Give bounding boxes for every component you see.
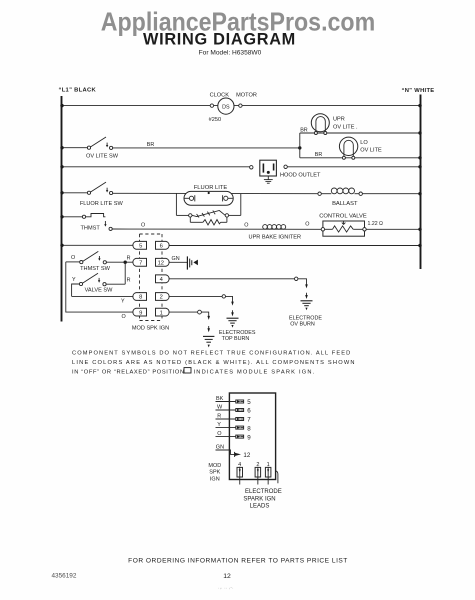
svg-text:W: W bbox=[217, 405, 223, 411]
svg-text:THMST SW: THMST SW bbox=[80, 266, 110, 272]
pin 6 bbox=[156, 241, 170, 249]
node junction right top bbox=[418, 104, 421, 107]
svg-text:R: R bbox=[127, 255, 131, 261]
node junction pin5 bbox=[60, 244, 63, 247]
svg-text:UPR: UPR bbox=[333, 117, 345, 123]
wire hood outlet line left bbox=[62, 166, 252, 168]
svg-text:O: O bbox=[217, 431, 222, 437]
svg-text:For Model: H6358W0: For Model: H6358W0 bbox=[199, 50, 262, 57]
switch FLUOR LITE SW bbox=[80, 182, 124, 207]
svg-text:#250: #250 bbox=[209, 117, 221, 123]
svg-text:7: 7 bbox=[139, 261, 142, 267]
svg-text:INDICATES MODULE SPARK IGN.: INDICATES MODULE SPARK IGN. bbox=[194, 369, 316, 375]
svg-text:OV BURN: OV BURN bbox=[290, 322, 315, 328]
svg-text:DS: DS bbox=[222, 104, 230, 110]
wire lead right edge bbox=[276, 471, 278, 483]
wire fluor line from bus bbox=[62, 192, 90, 194]
svg-text:MOTOR: MOTOR bbox=[236, 92, 257, 98]
connector row Y 8 bbox=[216, 422, 252, 432]
node junction line2 bbox=[60, 146, 63, 149]
svg-text:“L1” BLACK: “L1” BLACK bbox=[59, 88, 97, 94]
fluor starter circuit bbox=[176, 193, 240, 225]
svg-text:Y: Y bbox=[121, 299, 125, 305]
svg-text:SPK: SPK bbox=[209, 470, 220, 476]
svg-text:5: 5 bbox=[139, 244, 142, 250]
electrode TOP BURN bbox=[219, 302, 256, 343]
svg-text:BR: BR bbox=[300, 128, 308, 134]
pin 2 bbox=[156, 293, 170, 301]
wire R riser valve to thmst junction bbox=[124, 262, 126, 284]
connector detail box bbox=[229, 393, 275, 480]
switch OV LITE SW bbox=[86, 137, 119, 159]
label ELECTRODE SPARK IGN LEADS bbox=[243, 489, 281, 509]
svg-text:5: 5 bbox=[247, 399, 251, 406]
svg-text:HOOD OUTLET: HOOD OUTLET bbox=[280, 173, 321, 179]
svg-text:BR: BR bbox=[147, 142, 155, 148]
wire pin6 line to bus bbox=[169, 245, 421, 247]
svg-text:“N” WHITE: “N” WHITE bbox=[402, 88, 435, 94]
wire rail O left bbox=[66, 262, 133, 312]
pin 5 bbox=[133, 241, 147, 249]
wire hood outlet line right bbox=[287, 166, 420, 168]
wire valve to bus bbox=[366, 228, 420, 230]
svg-text:Y: Y bbox=[217, 422, 221, 428]
wire pin1 to electrode bbox=[170, 310, 209, 316]
svg-text:BK: BK bbox=[216, 396, 224, 402]
svg-text:R: R bbox=[127, 277, 131, 283]
svg-text:FLUOR LITE: FLUOR LITE bbox=[194, 185, 228, 191]
pin 4 bbox=[156, 275, 170, 283]
electrode OV BURN bbox=[289, 284, 322, 327]
svg-text:UPR BAKE IGNITER: UPR BAKE IGNITER bbox=[249, 235, 302, 241]
svg-text:CLOCK: CLOCK bbox=[210, 92, 230, 98]
svg-text:1: 1 bbox=[160, 310, 163, 316]
clock motor DS bbox=[209, 92, 257, 123]
connector row O 9 bbox=[216, 431, 252, 441]
hood outlet receptacle bbox=[250, 160, 321, 178]
svg-text:IN “OFF” OR “RELAXED” POSITION: IN “OFF” OR “RELAXED” POSITION. bbox=[72, 369, 187, 375]
wire line 2 from bus to OV LITE SW bbox=[62, 147, 90, 149]
svg-text:R: R bbox=[217, 414, 221, 420]
svg-text:GN: GN bbox=[216, 444, 224, 450]
svg-text:9: 9 bbox=[139, 310, 142, 316]
svg-text:IGN: IGN bbox=[210, 476, 220, 482]
control valve bbox=[319, 214, 383, 237]
electrode spark lead pin1 bbox=[203, 316, 214, 348]
wire vertical lamp branch bbox=[299, 133, 301, 158]
svg-text:O: O bbox=[141, 223, 145, 229]
wire fluor line to ballast bbox=[113, 192, 320, 194]
right bus N bbox=[420, 95, 422, 270]
electrode spark gap GN bbox=[187, 256, 198, 269]
pin 7 bbox=[133, 258, 147, 266]
node junction left top bbox=[60, 104, 63, 107]
svg-text:BR: BR bbox=[315, 152, 323, 158]
svg-text:12: 12 bbox=[223, 573, 231, 580]
node junction UPR right bbox=[418, 131, 421, 134]
svg-text:12: 12 bbox=[243, 452, 250, 459]
wire pin4 to electrode bbox=[170, 277, 307, 285]
svg-text:LINE COLORS ARE AS NOTED (BLAC: LINE COLORS ARE AS NOTED (BLACK & WHITE)… bbox=[72, 360, 356, 366]
note module box glyph bbox=[184, 368, 191, 373]
switch THMST SW bbox=[66, 251, 133, 271]
svg-text:6: 6 bbox=[247, 408, 251, 415]
node junction pin6 right bbox=[418, 244, 421, 247]
svg-text:ELECTRODE: ELECTRODE bbox=[245, 489, 282, 495]
svg-text:LO: LO bbox=[360, 140, 368, 146]
thermostat THMST bbox=[81, 214, 113, 232]
svg-text:1.22 Ω: 1.22 Ω bbox=[368, 221, 384, 227]
switch VALVE SW bbox=[72, 273, 126, 296]
svg-text:OV LITE SW: OV LITE SW bbox=[86, 153, 119, 159]
node junction hood right bbox=[418, 165, 421, 168]
svg-text:4356192: 4356192 bbox=[52, 572, 77, 579]
lamp UPR OV LITE bbox=[311, 114, 358, 135]
wire pin5 line bbox=[62, 244, 134, 246]
svg-text:Y: Y bbox=[72, 277, 76, 283]
fluor lamp tube bbox=[184, 191, 233, 205]
wire thermostat line from bus bbox=[62, 216, 85, 218]
svg-text:THMST: THMST bbox=[81, 225, 101, 231]
node junction fluor left bbox=[60, 191, 63, 194]
ballast coil bbox=[318, 188, 363, 207]
svg-text:O: O bbox=[122, 314, 126, 320]
wire LO lamp line bbox=[300, 157, 421, 159]
svg-text:COMPONENT SYMBOLS DO NOT REFLE: COMPONENT SYMBOLS DO NOT REFLECT TRUE CO… bbox=[72, 350, 351, 356]
wire ballast to bus bbox=[362, 193, 420, 195]
node junction ballast right bbox=[418, 192, 421, 195]
pin 9 bbox=[133, 308, 147, 316]
connector row BK 5 bbox=[216, 396, 252, 406]
svg-text:CONTROL VALVE: CONTROL VALVE bbox=[319, 214, 367, 220]
igniter coil UPR BAKE IGNITER bbox=[249, 225, 302, 241]
svg-text:ELECTRODES: ELECTRODES bbox=[219, 330, 256, 336]
svg-text:LEADS: LEADS bbox=[250, 503, 270, 509]
wire UPR lamp line bbox=[300, 132, 421, 134]
svg-text:7: 7 bbox=[247, 417, 251, 424]
node junction hood left bbox=[60, 165, 63, 168]
ground hood outlet bbox=[264, 176, 273, 183]
svg-text:O: O bbox=[244, 223, 248, 229]
connector vertical pin 1 bbox=[265, 462, 271, 484]
module dashed outline MOD SPK IGN bbox=[132, 234, 169, 331]
node junction LO right bbox=[418, 156, 421, 159]
svg-text:FLUOR LITE SW: FLUOR LITE SW bbox=[80, 201, 124, 207]
svg-text:MOD SPK IGN: MOD SPK IGN bbox=[132, 325, 169, 331]
wire BR from switch to lamp branch bbox=[113, 147, 300, 149]
node junction thmst bbox=[60, 215, 63, 218]
lamp LO OV LITE bbox=[339, 137, 382, 159]
wire Y to pin8 bbox=[72, 295, 133, 297]
node junction R bbox=[124, 261, 127, 264]
svg-text:ELECTRODE: ELECTRODE bbox=[289, 315, 322, 321]
svg-text:12: 12 bbox=[158, 261, 164, 267]
pin 12 bbox=[156, 258, 170, 266]
node junction valve right bbox=[418, 228, 421, 231]
svg-text:2: 2 bbox=[160, 295, 163, 301]
svg-text:8: 8 bbox=[139, 295, 142, 301]
svg-text:9: 9 bbox=[247, 434, 251, 441]
svg-text:6: 6 bbox=[160, 244, 163, 250]
svg-text:WIRING DIAGRAM: WIRING DIAGRAM bbox=[143, 30, 296, 48]
wire GN from pin12 bbox=[170, 261, 188, 263]
svg-text:MOD: MOD bbox=[208, 463, 221, 469]
connector row W 6 bbox=[216, 405, 252, 415]
svg-text:O: O bbox=[71, 255, 75, 261]
pin 8 bbox=[133, 293, 147, 301]
label MOD SPK IGN connector bbox=[208, 463, 221, 482]
svg-text:SPARK IGN: SPARK IGN bbox=[243, 496, 275, 502]
connector row GN 12 bbox=[216, 444, 251, 459]
svg-text:.,. .. ,-.: .,. .. ,-. bbox=[218, 585, 234, 591]
svg-text:GN: GN bbox=[172, 256, 180, 262]
pin 1 bbox=[156, 308, 170, 316]
wire igniter/valve line bbox=[112, 228, 322, 230]
svg-text:OV LITE .: OV LITE . bbox=[333, 124, 358, 130]
node junction BR branch bbox=[298, 146, 301, 149]
connector vertical pin 4 bbox=[237, 462, 243, 484]
connector vertical pin 2 bbox=[255, 462, 261, 484]
svg-text:OV LITE: OV LITE bbox=[360, 148, 382, 154]
svg-text:BALLAST: BALLAST bbox=[332, 201, 358, 207]
wire pin2 to electrode bbox=[170, 295, 233, 302]
svg-text:O: O bbox=[305, 222, 309, 228]
left bus L1 bbox=[61, 96, 63, 322]
svg-text:FOR ORDERING INFORMATION REFER: FOR ORDERING INFORMATION REFER TO PARTS … bbox=[128, 558, 348, 565]
svg-text:8: 8 bbox=[247, 425, 251, 432]
svg-text:VALVE SW: VALVE SW bbox=[85, 288, 113, 294]
svg-text:TOP BURN: TOP BURN bbox=[222, 336, 250, 342]
connector row R 7 bbox=[216, 414, 252, 424]
wire top line L1 to N bbox=[62, 105, 421, 107]
